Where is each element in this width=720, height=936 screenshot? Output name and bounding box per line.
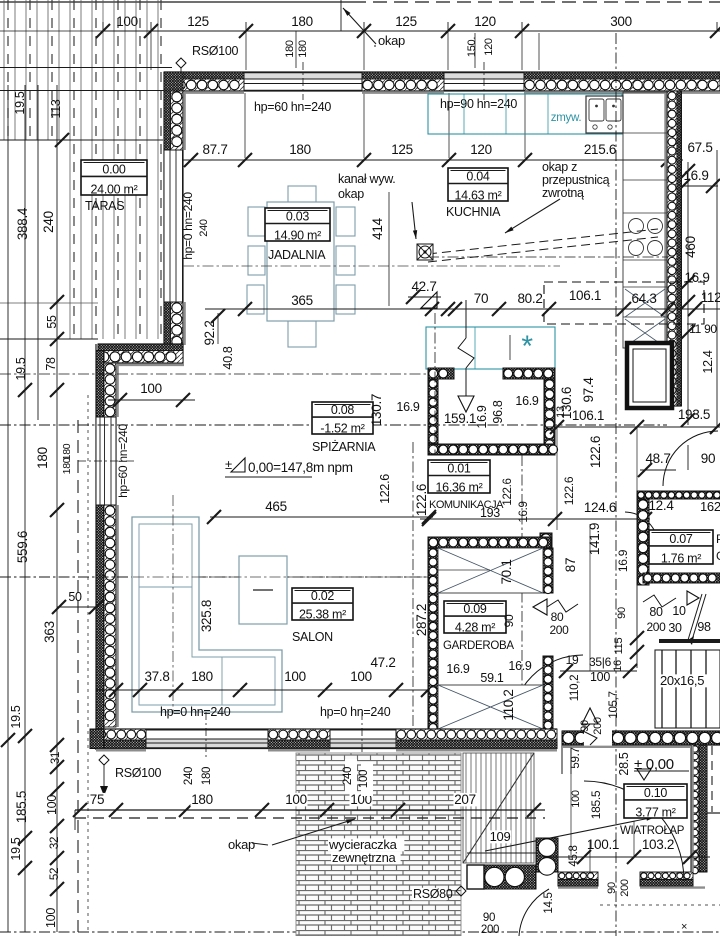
svg-text:115: 115 xyxy=(613,638,625,655)
svg-text:zwrotną: zwrotną xyxy=(542,186,584,200)
svg-text:90: 90 xyxy=(483,912,495,924)
svg-text:10: 10 xyxy=(672,604,686,618)
svg-text:363: 363 xyxy=(42,621,57,643)
svg-text:16.9: 16.9 xyxy=(683,168,708,183)
svg-text:215.6: 215.6 xyxy=(584,142,616,157)
svg-text:120: 120 xyxy=(474,14,496,29)
svg-text:59.7: 59.7 xyxy=(570,747,582,768)
svg-text:P: P xyxy=(716,532,720,546)
svg-text:kanał wyw.: kanał wyw. xyxy=(338,172,395,186)
svg-text:GARDEROBA: GARDEROBA xyxy=(443,640,514,652)
svg-text:12.4: 12.4 xyxy=(701,350,715,373)
svg-text:465: 465 xyxy=(265,499,287,514)
svg-text:180: 180 xyxy=(35,447,50,469)
svg-text:80.2: 80.2 xyxy=(517,291,542,306)
svg-text:125: 125 xyxy=(395,14,417,29)
svg-text:19.5: 19.5 xyxy=(9,837,23,860)
svg-text:130.7: 130.7 xyxy=(369,394,384,426)
svg-text:55: 55 xyxy=(45,315,59,329)
svg-text:365: 365 xyxy=(291,293,313,308)
svg-text:159.1: 159.1 xyxy=(444,411,476,426)
svg-text:16.9: 16.9 xyxy=(684,270,709,285)
svg-text:30: 30 xyxy=(668,621,682,635)
svg-text:WIATROŁAP: WIATROŁAP xyxy=(620,825,685,837)
svg-text:185.5: 185.5 xyxy=(14,791,29,823)
svg-text:28.5: 28.5 xyxy=(617,752,631,775)
svg-text:100: 100 xyxy=(570,790,582,808)
svg-text:87.7: 87.7 xyxy=(202,142,227,157)
svg-text:14.90 m²: 14.90 m² xyxy=(274,228,321,242)
svg-text:180: 180 xyxy=(289,142,311,157)
svg-text:40.8: 40.8 xyxy=(221,346,235,369)
svg-text:100.1: 100.1 xyxy=(587,837,619,852)
svg-text:110,2: 110,2 xyxy=(569,675,581,701)
svg-text:162: 162 xyxy=(700,499,720,514)
svg-text:1.76 m²: 1.76 m² xyxy=(661,551,701,565)
svg-text:16.9: 16.9 xyxy=(508,659,531,673)
svg-text:125: 125 xyxy=(187,14,209,29)
svg-text:100: 100 xyxy=(116,14,138,29)
svg-text:okap: okap xyxy=(338,187,364,201)
svg-text:122.6: 122.6 xyxy=(588,436,603,468)
svg-text:przepustnicą: przepustnicą xyxy=(542,173,610,187)
svg-text:287.2: 287.2 xyxy=(414,604,429,636)
svg-text:80: 80 xyxy=(551,610,564,624)
svg-text:42.7: 42.7 xyxy=(411,279,436,294)
svg-text:100: 100 xyxy=(590,670,610,684)
svg-text:35|6: 35|6 xyxy=(589,655,612,669)
svg-text:75: 75 xyxy=(90,792,104,807)
svg-text:100: 100 xyxy=(140,381,162,396)
svg-text:16.36 m²: 16.36 m² xyxy=(436,480,483,494)
svg-text:559.6: 559.6 xyxy=(15,531,30,563)
svg-text:16.9: 16.9 xyxy=(475,405,489,428)
svg-text:200: 200 xyxy=(646,620,666,634)
svg-text:48.7: 48.7 xyxy=(645,451,670,466)
svg-text:×: × xyxy=(681,921,687,933)
svg-text:0.08: 0.08 xyxy=(331,403,354,417)
svg-text:90: 90 xyxy=(606,882,618,894)
svg-text:RSØ100: RSØ100 xyxy=(192,44,238,58)
svg-text:141.9: 141.9 xyxy=(587,523,602,555)
svg-text:20x16,5: 20x16,5 xyxy=(660,673,704,688)
svg-text:414: 414 xyxy=(370,217,385,239)
svg-text:hp=0 hn=240: hp=0 hn=240 xyxy=(160,705,231,719)
svg-text:100: 100 xyxy=(45,795,59,815)
svg-text:180: 180 xyxy=(191,792,213,807)
svg-text:SALON: SALON xyxy=(292,630,333,644)
svg-text:0.03: 0.03 xyxy=(286,210,309,224)
svg-text:78: 78 xyxy=(44,357,58,371)
svg-text:± 0,00: ± 0,00 xyxy=(634,756,674,773)
svg-text:240: 240 xyxy=(41,211,56,233)
svg-text:SPIŻARNIA: SPIŻARNIA xyxy=(312,440,376,454)
svg-text:0.09: 0.09 xyxy=(463,602,486,616)
svg-text:16.9: 16.9 xyxy=(446,662,469,676)
svg-text:0.00: 0.00 xyxy=(102,162,125,176)
svg-text:92.2: 92.2 xyxy=(202,320,217,345)
svg-text:JADALNIA: JADALNIA xyxy=(268,248,326,262)
svg-text:TARAS: TARAS xyxy=(85,199,124,213)
svg-text:0.10: 0.10 xyxy=(644,786,667,800)
svg-text:16.9: 16.9 xyxy=(515,394,538,408)
svg-text:180: 180 xyxy=(191,669,213,684)
svg-text:*: * xyxy=(521,330,533,363)
svg-text:0.02: 0.02 xyxy=(311,589,334,603)
svg-text:±: ± xyxy=(225,457,232,472)
svg-text:19.5: 19.5 xyxy=(13,91,27,114)
svg-text:180: 180 xyxy=(291,14,313,29)
svg-text:14.5: 14.5 xyxy=(543,892,555,913)
svg-text:180: 180 xyxy=(201,767,213,785)
svg-text:460: 460 xyxy=(683,236,698,258)
svg-text:105,7: 105,7 xyxy=(608,691,620,718)
svg-text:50: 50 xyxy=(68,590,82,604)
svg-text:180: 180 xyxy=(61,457,73,474)
svg-text:122.6: 122.6 xyxy=(562,476,576,505)
svg-text:19.5: 19.5 xyxy=(14,357,28,380)
svg-text:106.1: 106.1 xyxy=(572,408,604,423)
svg-text:120: 120 xyxy=(470,142,492,157)
svg-text:okap: okap xyxy=(228,837,255,852)
svg-text:14.63 m²: 14.63 m² xyxy=(455,188,502,202)
svg-text:4.28 m²: 4.28 m² xyxy=(455,620,495,634)
svg-text:300: 300 xyxy=(610,14,632,29)
svg-text:200: 200 xyxy=(592,717,604,735)
svg-text:120: 120 xyxy=(483,38,495,56)
svg-text:zmyw.: zmyw. xyxy=(551,112,582,124)
svg-text:0.07: 0.07 xyxy=(669,532,692,546)
svg-text:90: 90 xyxy=(502,614,516,627)
svg-text:122.6: 122.6 xyxy=(378,474,392,504)
svg-text:90: 90 xyxy=(579,720,591,732)
svg-text:100: 100 xyxy=(350,669,372,684)
svg-text:185.5: 185.5 xyxy=(589,790,603,819)
svg-text:150.: 150. xyxy=(466,37,478,57)
svg-text:RSØ100: RSØ100 xyxy=(115,766,161,780)
svg-text:37.8: 37.8 xyxy=(144,669,169,684)
svg-text:hp=0 hn=240: hp=0 hn=240 xyxy=(320,705,391,719)
svg-text:0,00=147,8m npm: 0,00=147,8m npm xyxy=(248,460,353,475)
svg-text:180: 180 xyxy=(284,40,296,58)
svg-text:325.8: 325.8 xyxy=(199,600,214,632)
svg-text:200: 200 xyxy=(619,879,631,897)
svg-text:G: G xyxy=(716,549,720,563)
svg-text:52: 52 xyxy=(49,868,61,880)
svg-text:3.77 m²: 3.77 m² xyxy=(635,805,675,819)
svg-text:240: 240 xyxy=(183,767,195,785)
svg-text:70: 70 xyxy=(474,291,488,306)
svg-text:25.38 m²: 25.38 m² xyxy=(299,607,346,621)
svg-text:122.6: 122.6 xyxy=(502,478,514,505)
svg-text:59.1: 59.1 xyxy=(480,671,503,685)
svg-text:388.4: 388.4 xyxy=(15,207,30,240)
svg-text:240: 240 xyxy=(342,767,354,785)
svg-text:13: 13 xyxy=(555,406,567,418)
svg-text:96.8: 96.8 xyxy=(491,400,505,423)
svg-text:19.5: 19.5 xyxy=(9,705,23,728)
svg-text:200: 200 xyxy=(481,924,499,936)
svg-text:200: 200 xyxy=(549,623,569,637)
svg-text:193: 193 xyxy=(480,506,500,520)
svg-text:0.01: 0.01 xyxy=(447,462,470,476)
svg-text:31: 31 xyxy=(50,752,62,764)
svg-text:207: 207 xyxy=(454,792,476,807)
svg-text:122.6: 122.6 xyxy=(414,484,429,516)
svg-text:80: 80 xyxy=(649,605,663,619)
svg-text:193.5: 193.5 xyxy=(678,407,710,422)
svg-text:100: 100 xyxy=(285,792,307,807)
svg-text:70.1: 70.1 xyxy=(499,559,514,584)
svg-text:106.1: 106.1 xyxy=(569,288,601,303)
svg-text:98: 98 xyxy=(697,620,711,634)
svg-text:hp=60 hn=240: hp=60 hn=240 xyxy=(254,100,331,114)
svg-text:90: 90 xyxy=(616,607,628,619)
svg-text:hp=0 hn=240: hp=0 hn=240 xyxy=(181,192,195,260)
svg-text:okap z: okap z xyxy=(542,160,577,174)
svg-text:12.4: 12.4 xyxy=(648,498,674,513)
svg-text:100: 100 xyxy=(358,770,370,788)
svg-text:47.2: 47.2 xyxy=(370,655,395,670)
svg-text:KUCHNIA: KUCHNIA xyxy=(446,205,501,219)
svg-text:113: 113 xyxy=(49,99,63,118)
svg-text:124.6: 124.6 xyxy=(584,500,616,515)
svg-text:110.2: 110.2 xyxy=(501,689,516,720)
svg-text:zewnętrzna: zewnętrzna xyxy=(332,850,397,865)
svg-text:RSØ80: RSØ80 xyxy=(413,887,453,901)
svg-text:90: 90 xyxy=(701,451,715,466)
svg-text:97.4: 97.4 xyxy=(581,377,596,403)
svg-text:67.5: 67.5 xyxy=(687,140,712,155)
svg-text:180: 180 xyxy=(297,40,309,58)
svg-text:32: 32 xyxy=(49,837,61,849)
svg-text:109: 109 xyxy=(490,829,511,844)
svg-text:100: 100 xyxy=(44,908,58,928)
svg-text:16.9: 16.9 xyxy=(396,400,419,414)
svg-text:24.00 m²: 24.00 m² xyxy=(91,182,138,196)
svg-text:okap: okap xyxy=(378,33,405,48)
svg-text:-1.52 m²: -1.52 m² xyxy=(320,421,364,435)
svg-text:64.3: 64.3 xyxy=(631,291,656,306)
svg-text:125: 125 xyxy=(391,142,413,157)
svg-text:103.2: 103.2 xyxy=(642,837,674,852)
svg-text:240: 240 xyxy=(198,219,210,237)
svg-text:0.04: 0.04 xyxy=(466,170,489,184)
svg-text:16: 16 xyxy=(612,660,624,672)
svg-text:16.9: 16.9 xyxy=(616,549,630,572)
svg-text:100: 100 xyxy=(284,669,306,684)
svg-text:87: 87 xyxy=(563,558,578,572)
